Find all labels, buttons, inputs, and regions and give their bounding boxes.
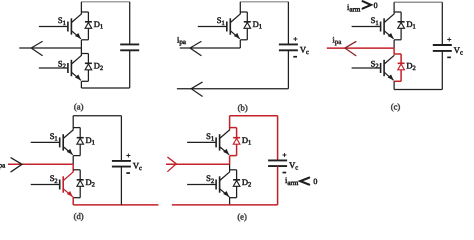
symbol > (c) [363, 1, 371, 8]
wire: S1 collector drop (d) [72, 116, 74, 130]
wire: S2 emitter drop (e) [229, 197, 231, 205]
wire: D1 branch (c) [400, 12, 402, 40]
wire: capacitor bottom lead (c) [441, 51, 443, 90]
wire red: D2 top jog (c) [394, 53, 401, 55]
diode D1 (b) [244, 21, 251, 23]
symbol < (e) [300, 178, 309, 185]
wire: D1 bottom jog (a) [81, 39, 88, 41]
wire: D1 bottom jog (d) [73, 155, 80, 157]
wire red: D1 branch (e) [236, 128, 238, 156]
wire red: D1 top jog (e) [230, 127, 237, 129]
arrow red: input current (e) [168, 157, 177, 171]
svg-text:(b): (b) [238, 102, 248, 112]
wire: S1 emitter to midpoint (c) [393, 40, 395, 48]
wire: S2 emitter drop (a) [80, 81, 82, 88]
transistor S1 (a) [39, 26, 68, 28]
wire: D2 bottom jog (d) [73, 197, 80, 199]
wire: capacitor top lead (b) [287, 2, 289, 45]
transistor S2 (c) [352, 67, 381, 69]
wire red: S2 emitter drop (d) [72, 197, 74, 205]
transistor S1 (c) [352, 26, 381, 28]
wire: D2 top jog (d) [73, 169, 80, 171]
arrow: output current ipa (b) [190, 42, 201, 56]
wire: D2 bottom jog (a) [81, 80, 88, 82]
wire red: capacitor bottom lead (e) [277, 166, 279, 205]
wire: output line red (c) [327, 47, 394, 49]
wire red: midpoint to S2 collector (d) [72, 164, 74, 172]
diode D2 (d) [77, 179, 84, 181]
svg-text:0: 0 [313, 177, 317, 186]
capacitor C with labels (b) [279, 43, 298, 45]
transistor S1 (e) [187, 141, 216, 143]
arrow: input current (d) [11, 158, 22, 172]
svg-text:+: + [282, 151, 286, 160]
wire red: S1 collector drop (e) [229, 116, 231, 130]
svg-text:+: + [447, 35, 451, 44]
wire: D1 branch (a) [87, 12, 89, 40]
wire: S1 emitter to midpoint (b) [239, 40, 241, 48]
wire: midpoint to S2 collector (a) [80, 48, 82, 56]
wire: S1 emitter to midpoint (a) [80, 40, 82, 48]
wire red: midpoint to S2 collector node (c) [393, 48, 395, 55]
diode D2 (e) [233, 179, 240, 181]
wire: D1 top jog (c) [394, 11, 401, 13]
svg-text:(e): (e) [237, 212, 247, 222]
svg-text:(d): (d) [74, 211, 84, 221]
wire red: S1 emitter to midpoint (e) [229, 156, 231, 165]
wire: bottom rail (b) [177, 88, 289, 90]
wire: capacitor bottom lead (a) [129, 50, 131, 88]
wire: S1 collector drop (b) [239, 2, 241, 14]
capacitor C with labels (d) [112, 160, 131, 162]
wire: capacitor top lead (a) [129, 2, 131, 45]
wire: D1 top jog (d) [73, 127, 80, 129]
wire red: bottom rail (e) [172, 204, 278, 206]
wire: output line (a) [19, 47, 81, 49]
wire: midpoint to S2 collector (e) [229, 164, 231, 172]
transistor S1 (d) [31, 141, 60, 143]
wire: capacitor bottom lead (b) [287, 50, 289, 88]
diode D2 (a) [85, 62, 92, 64]
wire: D2 branch (d) [79, 170, 81, 198]
wire: S1 emitter to midpoint (d) [72, 156, 74, 165]
wire: D1 branch (b) [246, 12, 248, 40]
wire: output line (b) [180, 47, 241, 49]
diode D1 (c) [398, 21, 405, 23]
diode D2 red (c) [398, 62, 405, 64]
wire: top rail (b) [240, 1, 288, 3]
wire: bottom rail (c) [394, 89, 442, 91]
wire: D2 bottom jog (e) [230, 197, 237, 199]
svg-text:(c): (c) [391, 102, 401, 112]
wire: D2 branch (e) [236, 170, 238, 198]
wire: top rail (a) [81, 1, 129, 3]
capacitor C (a) [120, 43, 139, 45]
wire: capacitor top lead (d) [120, 116, 122, 161]
wire red: D2 branch (c) [400, 54, 402, 81]
svg-text:+: + [293, 35, 297, 44]
wire: D2 branch (a) [87, 54, 89, 82]
arrow: output current (a) [31, 42, 42, 56]
wire red: top rail (e) [230, 115, 278, 117]
wire: top rail (d) [73, 115, 121, 117]
wire: bottom rail (a) [81, 87, 129, 89]
wire red: D2 bottom jog (c) [394, 80, 401, 82]
arrow: bottom rail current (b) [191, 82, 202, 96]
svg-text:0: 0 [374, 1, 378, 10]
wire: D1 bottom jog (b) [240, 39, 247, 41]
wire: D1 top jog (b) [240, 11, 247, 13]
wire: D2 top jog (e) [230, 169, 237, 171]
wire: D2 top jog (a) [81, 53, 88, 55]
transistor S2 red (d) [31, 184, 60, 186]
transistor S2 (e) [187, 184, 216, 186]
transistor S2 (a) [39, 67, 68, 69]
svg-text:(a): (a) [74, 102, 84, 112]
diode D1 red (e) [233, 137, 240, 139]
capacitor C with labels (e) [268, 159, 287, 161]
transistor S1 (b) [198, 26, 227, 28]
diode D1 (d) [77, 137, 84, 139]
wire red: input line (e) [166, 163, 230, 165]
wire: capacitor bottom lead (d) [120, 167, 122, 205]
wire: input line red (d) [8, 163, 73, 165]
svg-text:+: + [126, 151, 130, 160]
arrow: output current red (c) [345, 42, 356, 56]
wire: D1 bottom jog (c) [394, 39, 401, 41]
diode D1 (a) [85, 21, 92, 23]
wire: S2 emitter drop (c) [393, 81, 395, 89]
wire red: bottom rail (d) [73, 204, 158, 206]
wire: top rail (c) [394, 1, 442, 3]
wire: capacitor top lead (c) [441, 2, 443, 45]
wire: D1 top jog (a) [81, 11, 88, 13]
wire red: capacitor top lead (e) [277, 116, 279, 161]
wire red: D1 bottom jog (e) [230, 155, 237, 157]
wire: D1 branch (d) [79, 128, 81, 156]
wire: S1 collector drop (c) [393, 2, 395, 14]
capacitor C with labels (c) [433, 44, 452, 46]
wire: S1 collector drop (a) [80, 2, 82, 14]
